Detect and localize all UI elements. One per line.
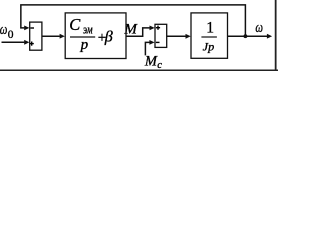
svg-text:1: 1 bbox=[206, 19, 214, 36]
node Mc label bbox=[144, 54, 162, 71]
svg-text:0: 0 bbox=[8, 29, 14, 41]
wire S2 to block W2 bbox=[167, 34, 191, 39]
wire S1 to block W1 bbox=[42, 34, 65, 39]
svg-text:С: С bbox=[69, 15, 81, 34]
right border rule bbox=[275, 0, 277, 71]
svg-text:ω: ω bbox=[0, 22, 7, 38]
svg-text:p: p bbox=[80, 37, 89, 53]
svg-text:ω: ω bbox=[255, 20, 263, 36]
svg-text:c: c bbox=[157, 60, 162, 71]
svg-text:Jp: Jp bbox=[203, 39, 215, 53]
summing junction S1 bbox=[30, 22, 42, 50]
junction dot (feedback takeoff) bbox=[244, 34, 248, 38]
bottom border rule bbox=[0, 69, 278, 71]
wire feedback loop (top) bbox=[21, 5, 246, 36]
wire Mc input (from below) bbox=[145, 40, 154, 55]
wire omega0 input bbox=[2, 40, 30, 45]
node omega0 input label bbox=[0, 22, 14, 41]
block W2 (1/Jp) bbox=[191, 13, 228, 58]
wire M to S2 (up elbow) bbox=[126, 26, 155, 37]
svg-text:эм: эм bbox=[83, 22, 93, 37]
svg-text:M: M bbox=[123, 22, 138, 38]
wire W2 output bbox=[228, 34, 273, 39]
svg-text:β: β bbox=[104, 29, 113, 46]
block W1 (C_em/p + beta) bbox=[65, 13, 126, 59]
summing junction S2 bbox=[155, 24, 167, 47]
svg-text:M: M bbox=[144, 54, 158, 70]
